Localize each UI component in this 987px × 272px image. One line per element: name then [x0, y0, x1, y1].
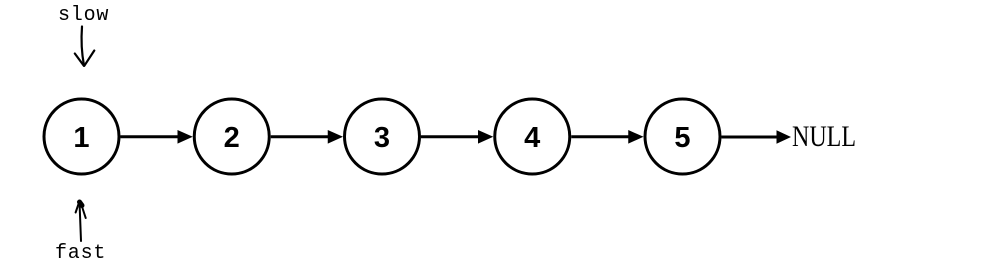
node 4	[495, 99, 570, 174]
svg-text:fast: fast	[55, 242, 106, 265]
wire node2 to node3	[271, 130, 343, 144]
svg-text:5: 5	[674, 122, 690, 154]
arrow fast-pointer (hand-drawn up arrow)	[76, 202, 86, 241]
svg-text:2: 2	[224, 122, 240, 154]
node 2	[194, 99, 269, 174]
arrow slow-pointer (hand-drawn down arrow)	[75, 27, 95, 66]
wire node5 to NULL	[722, 130, 792, 144]
svg-text:4: 4	[524, 122, 540, 154]
svg-text:slow: slow	[58, 4, 109, 27]
wire node3 to node4	[421, 130, 493, 144]
node 5	[645, 99, 720, 174]
node 1	[44, 99, 119, 174]
svg-text:3: 3	[374, 122, 390, 154]
svg-text:NULL: NULL	[792, 120, 856, 153]
wire node1 to node2	[121, 130, 193, 144]
svg-text:1: 1	[73, 122, 89, 154]
node 3	[345, 99, 420, 174]
wire node4 to node5	[571, 130, 643, 144]
